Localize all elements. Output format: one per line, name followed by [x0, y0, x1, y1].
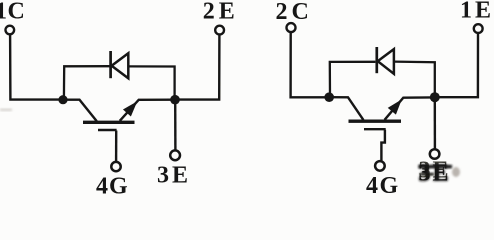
- diode D1 cathode bar: [109, 51, 112, 78]
- IGBT Q2 emitter wire: [385, 97, 431, 119]
- terminal label 3E right (smudged print): [418, 158, 452, 188]
- svg-text:2C: 2C: [276, 0, 313, 25]
- wire diode D2 anode to node D: [394, 62, 434, 93]
- diode D2 triangle (anode): [378, 49, 394, 74]
- wire 2C terminal to node C: [291, 32, 329, 97]
- terminal 4G right: [375, 161, 385, 171]
- terminal 1C: [6, 26, 15, 35]
- wire node A up to diode D1 cathode side: [64, 66, 110, 100]
- IGBT Q2 emitter arrow: [389, 101, 401, 114]
- diode D1 triangle (anode): [112, 53, 129, 78]
- wire node C up to diode D2 cathode side: [330, 62, 376, 97]
- svg-text:1C: 1C: [0, 0, 25, 25]
- svg-text:3E: 3E: [157, 162, 191, 188]
- IGBT Q1 emitter arrow: [124, 103, 136, 116]
- svg-text:2E: 2E: [203, 0, 239, 24]
- IGBT Q1 collector wire: [63, 100, 97, 122]
- node C (junction dot, collector rail right module): [324, 92, 334, 102]
- IGBT Q2 gate plate: [364, 128, 386, 130]
- svg-text:4G: 4G: [366, 173, 400, 195]
- node D (junction dot, emitter rail right module): [430, 92, 440, 102]
- wire node B to terminal 2E: [175, 35, 219, 100]
- node A (junction dot, collector rail left): [58, 95, 67, 104]
- svg-text:4G: 4G: [96, 173, 129, 195]
- terminal 4G left: [111, 162, 120, 171]
- node B (junction dot, emitter rail right): [170, 95, 180, 105]
- wire node D to terminal 1E: [435, 33, 478, 97]
- wire node D down to terminal 3E: [434, 97, 437, 149]
- terminal 2E: [215, 26, 224, 35]
- IGBT Q2 body bar: [349, 119, 402, 122]
- terminal 3E left: [170, 150, 180, 160]
- IGBT Q1 gate lead: [115, 131, 117, 163]
- faint scan smudge at left margin: [0, 109, 12, 112]
- svg-text:1E: 1E: [460, 0, 494, 24]
- stray print artifact right of 3E: [452, 167, 460, 177]
- IGBT Q1 body bar: [83, 121, 135, 124]
- terminal 1E: [474, 24, 483, 33]
- terminal 2C: [287, 23, 296, 32]
- diode D2 cathode bar: [375, 47, 378, 73]
- IGBT Q2 collector wire: [329, 97, 363, 120]
- IGBT Q1 emitter wire: [120, 100, 172, 121]
- terminal 3E right: [430, 149, 440, 159]
- wire diode D1 anode to node B: [129, 66, 175, 96]
- IGBT Q1 gate plate: [98, 129, 117, 131]
- wire 1C terminal to node A: [10, 35, 63, 100]
- IGBT Q2 gate lead: [381, 130, 385, 161]
- wire node B down to terminal 3E: [174, 100, 177, 151]
